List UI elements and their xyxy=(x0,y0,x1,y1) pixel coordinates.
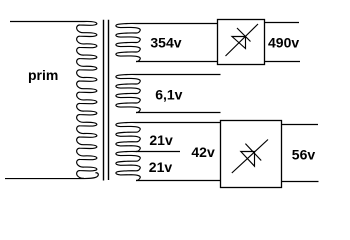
secondary winding 354v xyxy=(116,23,140,61)
secondary winding 21v lower half xyxy=(116,151,140,180)
svg-text:21v: 21v xyxy=(149,159,173,175)
secondary winding 21v upper half xyxy=(116,122,140,151)
svg-text:56v: 56v xyxy=(292,147,316,163)
transformer core right bar xyxy=(108,20,110,180)
wire B2 output top (56v) xyxy=(282,124,319,126)
wire B2 output bottom (56v) xyxy=(282,181,319,183)
rectifier B2 diode symbol xyxy=(232,140,268,174)
wire 6,1v winding top lead xyxy=(136,74,221,76)
wire primary top lead xyxy=(10,21,84,23)
wire primary bottom lead xyxy=(5,173,98,179)
svg-text:490v: 490v xyxy=(268,34,299,50)
wire B1 output top (490v) xyxy=(265,22,300,24)
transformer core left bar xyxy=(103,20,105,181)
wire 6,1v winding bottom lead xyxy=(136,112,221,114)
wire center tap of 42v winding xyxy=(136,151,180,153)
rectifier B1 diode symbol xyxy=(226,24,259,56)
svg-text:21v: 21v xyxy=(149,132,173,148)
svg-text:prim: prim xyxy=(28,67,58,83)
rectifier bridge B2 box xyxy=(221,121,282,188)
svg-text:6,1v: 6,1v xyxy=(155,87,182,103)
svg-text:42v: 42v xyxy=(191,144,215,160)
wire B1 output bottom (490v) xyxy=(265,61,301,63)
wire 354v winding top lead to bridge B1 xyxy=(136,23,218,25)
secondary winding 6,1v xyxy=(116,74,140,112)
wire 354v winding bottom lead to bridge B1 xyxy=(136,61,218,63)
primary winding prim xyxy=(77,21,97,178)
wire 21v lower winding bottom lead to bridge B2 xyxy=(136,180,221,182)
wire 21v upper winding top lead to bridge B2 xyxy=(136,122,221,124)
svg-text:354v: 354v xyxy=(150,35,181,51)
rectifier bridge B1 box xyxy=(218,20,265,65)
